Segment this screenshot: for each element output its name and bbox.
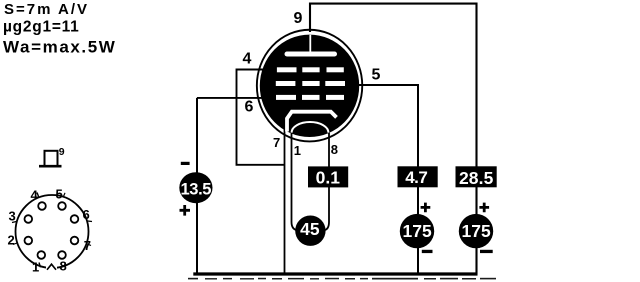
tube U1: heater filament dome — [292, 122, 329, 133]
svg-text:6: 6 — [83, 207, 90, 222]
polarity plus of B4 — [479, 203, 489, 213]
wire: g2 pin 5 right and down through 4.7 to bus — [348, 85, 418, 275]
base pinout: envelope circle with key notch — [16, 195, 89, 270]
svg-text:0.1: 0.1 — [316, 168, 341, 188]
tube U1: grid g3 row — [277, 67, 344, 72]
wire: anode pin 9 up, across top, down right branch to bus — [310, 4, 477, 275]
svg-text:7: 7 — [84, 238, 91, 253]
svg-text:4: 4 — [31, 188, 39, 203]
svg-text:S=7m A/V: S=7m A/V — [4, 1, 89, 18]
base pinout: pin number labels — [8, 187, 92, 275]
wire: pin 4 stub down to cathode junction — [237, 70, 285, 165]
svg-text:5: 5 — [372, 67, 381, 84]
base pinout: label ticks — [12, 193, 92, 268]
svg-text:µg2g1=11: µg2g1=11 — [3, 18, 80, 35]
polarity plus of B3 — [421, 203, 431, 213]
svg-text:8: 8 — [331, 142, 338, 157]
svg-text:45: 45 — [300, 219, 320, 239]
wire: left branch vertical through 13.5 source to bus — [196, 98, 198, 275]
svg-text:8: 8 — [60, 259, 67, 274]
svg-text:2: 2 — [8, 233, 15, 248]
polarity plus of 13.5 — [180, 205, 191, 216]
svg-text:4: 4 — [243, 51, 252, 68]
svg-text:9: 9 — [294, 10, 303, 27]
source B2: heater 45 — [295, 216, 325, 246]
wire: cathode pin 7 down to bus — [284, 124, 286, 275]
base pinout: pin dots 1-8 — [25, 202, 79, 259]
tube U1: grid g1 row — [276, 95, 344, 100]
wire: heater pin 8 down through 0.1 to 45 source — [324, 128, 329, 230]
source B4: anode supply 175 — [459, 214, 493, 248]
svg-text:5: 5 — [56, 187, 63, 202]
tube U1: envelope — [257, 30, 362, 142]
meter box 0.1 — [308, 166, 348, 187]
tube U1: electrode assembly disc — [260, 35, 359, 137]
svg-text:13.5: 13.5 — [181, 181, 212, 199]
svg-text:1: 1 — [32, 260, 39, 275]
svg-text:28.5: 28.5 — [459, 168, 494, 188]
meter box 4.7 — [398, 166, 438, 187]
source B1: grid bias 13.5 — [179, 172, 212, 203]
svg-text:175: 175 — [461, 221, 490, 241]
polarity minus of B3 — [422, 250, 433, 253]
svg-text:6: 6 — [245, 99, 254, 116]
svg-text:4.7: 4.7 — [405, 168, 427, 187]
base pinout: shield symbol square with pin 9 — [39, 151, 62, 166]
svg-text:175: 175 — [402, 221, 431, 241]
polarity minus of 13.5 — [181, 162, 190, 165]
svg-text:9: 9 — [59, 146, 65, 158]
polarity minus of B4 — [480, 250, 493, 253]
source B3: screen supply 175 — [400, 214, 434, 248]
wire: heater pin 1 down to 45 source — [292, 128, 298, 230]
wire: pin 6 row left to bias branch — [197, 97, 276, 99]
meter box 28.5 — [456, 166, 497, 187]
tube U1: anode lead — [309, 35, 311, 52]
tube U1: anode plate — [285, 52, 338, 57]
tube U1: grid g2 row — [276, 81, 345, 86]
svg-text:Wa=max.5W: Wa=max.5W — [3, 37, 116, 56]
tube U1: cathode — [287, 112, 337, 132]
svg-text:3: 3 — [9, 209, 16, 224]
svg-text:7: 7 — [273, 135, 280, 150]
svg-text:1: 1 — [294, 143, 301, 158]
scan noise at bottom edge — [188, 278, 496, 280]
wire: ground bus — [193, 272, 477, 275]
